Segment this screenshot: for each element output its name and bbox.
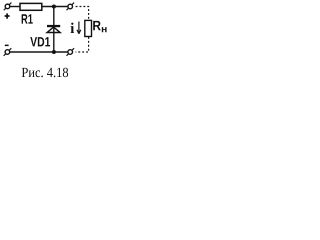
label current i [71, 23, 75, 33]
terminal top-left (+ input) [4, 3, 12, 11]
wire R1 to node A [42, 6, 68, 8]
wire VD1 anode down to node B [53, 27, 55, 52]
label R1 [22, 14, 33, 23]
caption Рис. 4.18 [22, 68, 68, 78]
current arrow down [77, 22, 81, 34]
zener diode VD1 cathode bar [47, 25, 60, 27]
wire bottom rail [10, 51, 68, 53]
minus polarity label [5, 45, 9, 47]
node B junction dot [52, 50, 56, 54]
zener diode VD1 triangle [47, 27, 60, 32]
dashed wire Rn to bottom [76, 37, 89, 52]
terminal bottom-left (- input) [4, 48, 12, 56]
dashed wire top to Rn [76, 7, 89, 21]
wire top-left to R1 [10, 6, 20, 8]
terminal top-right (output +) [67, 3, 75, 11]
node A junction dot [52, 5, 56, 9]
terminal bottom-right (output -) [67, 48, 75, 56]
wire node A down to VD1 cathode [53, 7, 55, 26]
label Rn [93, 21, 106, 32]
label VD1 [30, 37, 50, 46]
resistor R1 [20, 3, 42, 10]
plus polarity label [5, 13, 10, 18]
load resistor Rn box [85, 20, 92, 36]
